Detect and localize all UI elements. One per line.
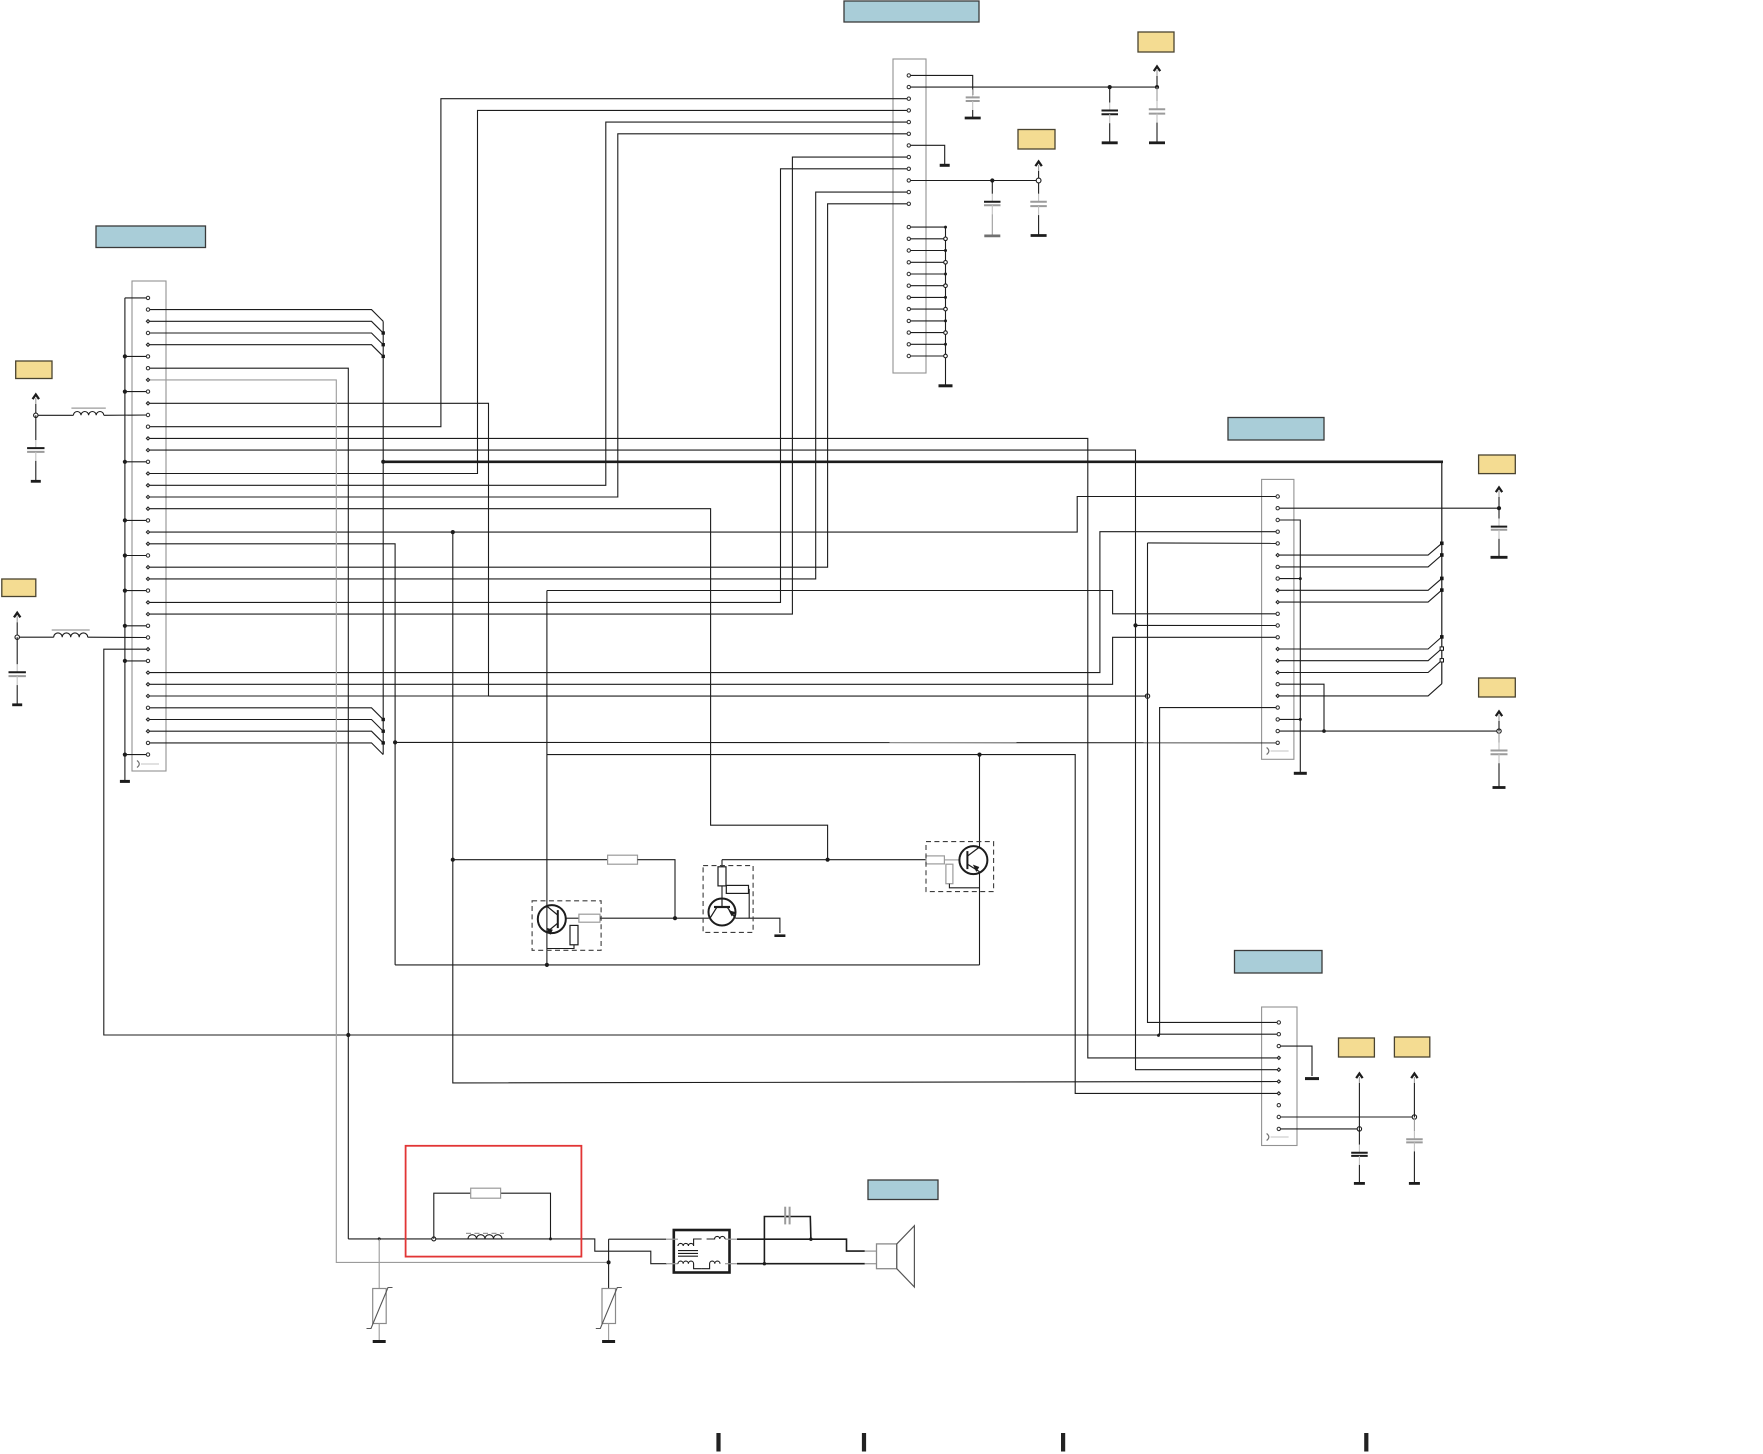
junction jog bottom 36 <box>382 718 385 721</box>
wire J2 pin 29 to bus <box>125 625 148 627</box>
transistor Q1 <box>538 905 566 935</box>
wire J2 pin 37 jog <box>148 720 383 732</box>
junction jog bottom 37 <box>382 730 385 733</box>
wire J1 pin 24 stub <box>909 355 946 357</box>
wire L1 to J2 pin 11 <box>104 414 148 416</box>
wire J1 pin6 - J2 pin18 <box>148 134 909 497</box>
junction VCC right upper <box>1497 506 1501 510</box>
junction rail T1 <box>545 963 549 967</box>
label box (blue) right <box>1228 418 1324 441</box>
wire J1 pin4 - J2 pin16 <box>148 110 909 473</box>
junction bus pin 6 <box>123 354 127 358</box>
wire J1 pin 13 stub <box>909 226 946 228</box>
wire J2 pin 36 jog <box>148 708 383 720</box>
junction VCC right lower <box>1497 729 1501 733</box>
wire T1 feed to J3 pin11 <box>547 591 1278 614</box>
wire base row to T2 <box>638 860 676 919</box>
wire J1 pin 19 stub <box>909 296 946 298</box>
wire T1 vertical <box>546 591 548 965</box>
wire R6 to T3 <box>944 859 959 861</box>
wire J1 pin8 - J2 pin28 <box>148 157 909 614</box>
ground J4 pin3 <box>1305 1077 1319 1080</box>
wire J2 pin21 to J3 pin1 <box>148 497 1278 533</box>
junction cap branch top <box>809 1238 812 1241</box>
wire J2 pin 39 jog <box>148 743 383 755</box>
junction T3 collector tap <box>977 753 981 757</box>
node power 1 <box>34 413 38 417</box>
wire red loop <box>434 1193 471 1239</box>
wire J2 pin 9 to bus <box>125 391 148 393</box>
junction J1 bus 15 <box>944 249 947 252</box>
connector J2 body <box>132 281 166 771</box>
node power mid <box>1036 178 1041 183</box>
wire J1 pin 21 stub <box>909 320 946 322</box>
wire J3 pin21 cap <box>1278 730 1499 732</box>
junction base net tap <box>451 530 455 534</box>
junction bus pin 29 <box>123 624 127 628</box>
capacitor C6 <box>984 181 1001 236</box>
wire cap branch <box>785 1217 811 1240</box>
resistor R3 <box>570 925 578 944</box>
junction shield jog 10 <box>1440 588 1444 592</box>
wire J3 pin3 gnd net <box>1278 520 1301 773</box>
resistor R4 <box>718 867 726 886</box>
value label (yellow) VCC top right <box>1138 32 1174 52</box>
varistor RV1 <box>367 1288 393 1341</box>
wire J3 pin 15 jog <box>1278 649 1442 661</box>
junction jog top 4 <box>382 343 385 346</box>
wire base net vertical <box>453 532 1279 1083</box>
varistor RV2 <box>596 1288 622 1341</box>
wire J1 pin 18 stub <box>909 285 946 287</box>
junction J1 bus 24 <box>944 354 948 358</box>
border tick 4 <box>1364 1433 1368 1452</box>
wire J4 pin7 feed row <box>547 755 1279 1094</box>
wire J2 pin 23 to bus <box>125 555 148 557</box>
junction J1 bus 22 <box>944 331 948 335</box>
junction gray net <box>607 1260 611 1264</box>
wire J3 pin8 stub <box>1278 578 1301 580</box>
border tick 3 <box>1061 1433 1065 1452</box>
wire shield bus vertical <box>1441 462 1443 684</box>
junction shield jog 6 <box>1440 542 1444 546</box>
ground RV1 <box>373 1340 386 1343</box>
wire row J2 pin14 <box>148 450 1279 1070</box>
wire J3 pin20 stub <box>1278 718 1301 720</box>
wire J3 pin5 stub <box>1148 542 1278 545</box>
capacitor C5 <box>1149 87 1165 143</box>
value label (yellow) VCC mid <box>1018 130 1055 150</box>
wire R3 bottom <box>547 945 574 949</box>
power flag left upper <box>33 395 39 416</box>
inductor L3 <box>466 1233 504 1239</box>
wire J1 pin 17 stub <box>909 273 946 275</box>
junction jog bottom 38 <box>382 741 385 744</box>
wire red loop right <box>501 1193 551 1239</box>
value label (yellow) left lower <box>2 579 36 597</box>
junction shield jog 9 <box>1440 577 1444 581</box>
resistor R1 <box>608 855 638 864</box>
power flag right upper <box>1496 488 1502 509</box>
connector J1 pins <box>907 74 910 358</box>
wire J2 pin 6 to bus <box>125 355 148 357</box>
junction C5 <box>1155 85 1159 89</box>
wire row J2 pin13 <box>148 438 1279 1058</box>
junction jog top 5 <box>382 355 385 358</box>
junction J1 bus 19 <box>944 296 947 299</box>
wire J2 pin35 row <box>148 695 1148 697</box>
power flag top right <box>1154 67 1160 88</box>
wire cap branch2 <box>764 1217 789 1264</box>
wire J3 pin12 branch <box>1136 624 1278 626</box>
wire T1 collector row <box>566 917 579 919</box>
power flag mid <box>1035 162 1041 179</box>
junction J3 pin8 <box>1299 577 1302 580</box>
ground J1 pin7 <box>940 164 950 167</box>
enclosure T1 (dashed) <box>532 901 601 951</box>
wire J1 pin 16 stub <box>909 261 946 263</box>
wire J3 pin 9 jog <box>1278 578 1442 590</box>
wire shield net (thick) <box>383 460 1443 463</box>
junction cap branch bottom <box>763 1262 766 1265</box>
wire T3 collector <box>979 755 981 848</box>
speaker LS1 <box>865 1226 915 1287</box>
power flag bottom 2 <box>1411 1074 1417 1118</box>
junction jog top 3 <box>382 331 385 334</box>
junction J1 bus 16 <box>944 261 948 265</box>
junction shield jog 15 <box>1440 647 1443 650</box>
label box (blue) lower right <box>1235 951 1323 974</box>
transistor Q3 <box>959 846 987 874</box>
junction base row <box>451 858 455 862</box>
junction J4 pin10 <box>1357 1127 1361 1131</box>
capacitor C7 <box>1030 183 1047 236</box>
capacitor C11 <box>1406 1117 1423 1183</box>
wire left ground bus <box>124 298 126 782</box>
junction red box net <box>346 1033 350 1037</box>
junction J3 pin17/21 <box>1322 729 1326 733</box>
capacitor C3 <box>965 89 981 118</box>
junction J1 bus 18 <box>944 284 948 288</box>
wire J2 pin10 down <box>148 403 489 696</box>
wire J2 pin 26 to bus <box>125 590 148 592</box>
wire row 696 to J3/J4 <box>489 695 1148 697</box>
label box (blue) top <box>844 1 979 22</box>
junction bus pin 9 <box>123 390 127 394</box>
wire J1 pin 23 stub <box>909 343 946 345</box>
junction J4 pin9 <box>1412 1115 1416 1119</box>
wire J3 pin 7 jog <box>1278 555 1442 567</box>
wire J1 pin 14 stub <box>909 238 946 240</box>
border tick 1 <box>716 1433 720 1452</box>
junction shield start <box>381 460 385 464</box>
wire J1 pin3 - J2 pin12 <box>148 99 909 427</box>
junction rail tap <box>393 740 397 744</box>
wire J1 pin12 - J2 pin24 <box>148 204 909 567</box>
wire J4 pin3 gnd <box>1279 1046 1312 1076</box>
wire J4 pin10 cap <box>1279 1128 1360 1130</box>
wire jog bus <box>382 321 384 356</box>
wire J2 pin 38 jog <box>148 731 383 743</box>
resistor R6 <box>926 856 944 864</box>
wire J1 pin 22 stub <box>909 332 946 334</box>
wire J1 pin11 - J2 pin25 <box>148 192 909 579</box>
wire J2 pin 1 to bus <box>125 297 148 299</box>
connector J4 pins <box>1267 1021 1289 1141</box>
power flag bottom 1 <box>1356 1074 1362 1129</box>
wire J3 pin2 cap <box>1278 507 1499 509</box>
junction shield jog 7 <box>1440 553 1444 557</box>
capacitor C2 <box>9 637 26 705</box>
resistor R2 <box>579 914 600 922</box>
wire J2 pin8 gray net <box>148 380 609 1263</box>
wire J2 pin33 to J3 pin4 <box>148 532 1278 673</box>
junction collector net <box>1133 623 1137 627</box>
junction shield jog 14 <box>1440 635 1444 639</box>
junction J1 bus 20 <box>944 307 948 311</box>
connector J2 pins <box>137 296 159 767</box>
wire J3 pin 10 jog <box>1278 590 1442 602</box>
connector J4 body <box>1262 1007 1297 1146</box>
wire J2 pin34 to J3 pin13 <box>148 637 1278 684</box>
wire speaker bottom <box>737 1263 865 1265</box>
power flag left lower <box>14 613 20 637</box>
junction shield jog 16 <box>1440 659 1443 662</box>
value label (yellow) bottom 1 <box>1339 1038 1375 1057</box>
junction bus pin 20 <box>123 518 127 522</box>
wire jog bus mid <box>382 356 384 719</box>
wire L2 to J2 pin 30 <box>88 636 148 638</box>
wire J2 pin 20 to bus <box>125 519 148 521</box>
wire J3 pin19 down <box>1160 708 1278 1035</box>
inductor L2 <box>52 630 90 637</box>
node red left <box>432 1237 436 1241</box>
wire J2 pin22 rail tap <box>148 544 395 965</box>
wire J3 pin 16 jog <box>1278 660 1442 672</box>
wire J3 pin 14 jog <box>1278 637 1442 649</box>
transistor Q2 <box>709 899 737 926</box>
wire J3 pin5 / J4 pin1 net <box>1148 543 1279 1023</box>
junction J1 bus 14 <box>944 237 948 241</box>
junction J1 bus 13 <box>944 226 947 229</box>
junction C6 <box>990 178 994 182</box>
wire J1 lower bus <box>945 227 947 386</box>
wire J2 pin19 transistor base feed <box>148 509 828 860</box>
wire J1 pin5 - J2 pin17 <box>148 122 909 485</box>
value label (yellow) right upper <box>1479 455 1516 474</box>
wire transformer top feed <box>609 1238 666 1240</box>
junction bias <box>826 858 830 862</box>
junction bus pin 26 <box>123 589 127 593</box>
connector J3 body <box>1262 479 1294 759</box>
capacitor C1 <box>27 415 44 481</box>
wire J2 pin 3 jog <box>148 321 383 333</box>
ground left bus <box>120 780 130 783</box>
capacitor C12 <box>1351 1129 1368 1184</box>
border tick 2 <box>862 1433 866 1452</box>
resistor R7 <box>946 864 953 884</box>
value label (yellow) left upper <box>16 361 52 379</box>
wire J1 pin7 to gnd <box>909 145 945 165</box>
wire J2 pin 32 to bus <box>125 660 148 662</box>
wire bias row right <box>722 859 926 861</box>
wire power node 1 <box>36 414 74 416</box>
connector J1 body <box>893 59 926 373</box>
label box (blue) speaker <box>868 1180 938 1200</box>
protection area (red box) <box>406 1146 582 1257</box>
label box (blue) left <box>96 226 206 248</box>
value label (yellow) bottom 2 <box>1394 1037 1429 1057</box>
capacitor C4 <box>1102 87 1119 143</box>
junction J4 pin2 net <box>1157 1034 1160 1037</box>
wire J4 pin9 cap <box>1279 1116 1415 1118</box>
connector J3 pins <box>1267 495 1289 755</box>
ground T2 <box>774 934 785 937</box>
capacitor C8 <box>1491 508 1508 557</box>
wire J3 pin17 link <box>1278 684 1324 731</box>
junction row696 <box>1145 694 1149 698</box>
wire varistor 1 stem <box>378 1239 380 1289</box>
wire T3 emitter <box>979 872 981 965</box>
node power 2 <box>15 635 19 639</box>
wire base row left <box>453 859 608 861</box>
wire J3 pin 18 jog <box>1278 684 1442 696</box>
junction J1 bus 23 <box>944 343 947 346</box>
wire J1 pin 15 stub <box>909 250 946 252</box>
junction T2 base <box>673 916 677 920</box>
junction varistor 1 <box>378 1237 381 1240</box>
wire R7 bottom <box>949 884 979 888</box>
wire J1 pin2 rail <box>909 86 1157 88</box>
capacitor C10 (series) <box>785 1207 789 1225</box>
inductor L1 <box>71 408 105 415</box>
resistor R5 <box>726 885 748 893</box>
wire J3 pin22 row <box>395 741 1278 743</box>
wire J1 pin10 rail <box>909 180 1039 182</box>
transformer T (line filter) <box>666 1230 737 1273</box>
junction J1 bus 17 <box>944 273 947 276</box>
wire varistor 2 stem <box>608 1239 610 1288</box>
wire J2 pin 40 to bus <box>125 754 148 756</box>
wire R5 link <box>748 889 751 918</box>
junction bus pin 15 <box>123 460 127 464</box>
ground J1 bus <box>939 384 953 387</box>
resistor R8 <box>471 1188 501 1198</box>
wire T2 emitter <box>736 918 780 933</box>
junction C4 <box>1108 85 1112 89</box>
capacitor C9 <box>1491 731 1508 787</box>
wire J3 pin 6 jog <box>1278 543 1442 555</box>
wire R2 to T2 base <box>600 917 709 919</box>
wire J1 pin1 to C3 <box>909 75 973 95</box>
value label (yellow) right lower <box>1479 678 1516 697</box>
junction J3 pin20 <box>1299 718 1302 721</box>
enclosure T3 (dashed) <box>926 842 994 892</box>
power flag right lower <box>1496 712 1502 732</box>
node red right <box>549 1237 552 1240</box>
wire J2 pin 5 jog <box>148 345 383 357</box>
wire J2 pin31 row <box>104 649 1279 1035</box>
enclosure T2 (dashed) <box>703 866 753 933</box>
ground RV2 <box>602 1340 615 1343</box>
wire main speaker feed <box>348 1239 667 1264</box>
junction bus pin 32 <box>123 659 127 663</box>
wire T2 collector up <box>721 860 723 899</box>
junction bus pin 40 <box>123 753 127 757</box>
wire J2 pin 15 to bus <box>125 461 148 463</box>
junction J1 bus 21 <box>944 319 947 322</box>
wire speaker top <box>737 1239 865 1251</box>
ground J3 net <box>1294 772 1307 775</box>
wire jog bus lower <box>382 719 384 754</box>
wire power node 2 <box>17 636 54 638</box>
wire J2 pin 4 jog <box>148 333 383 345</box>
wire J2 pin7 down <box>148 368 348 1239</box>
wire J2 pin 2 jog <box>148 310 383 322</box>
wire emitter rail <box>395 964 979 966</box>
wire J1 pin 20 stub <box>909 308 946 310</box>
junction bus pin 23 <box>123 553 127 557</box>
wire J1 pin9 - J2 pin27 <box>148 169 909 603</box>
